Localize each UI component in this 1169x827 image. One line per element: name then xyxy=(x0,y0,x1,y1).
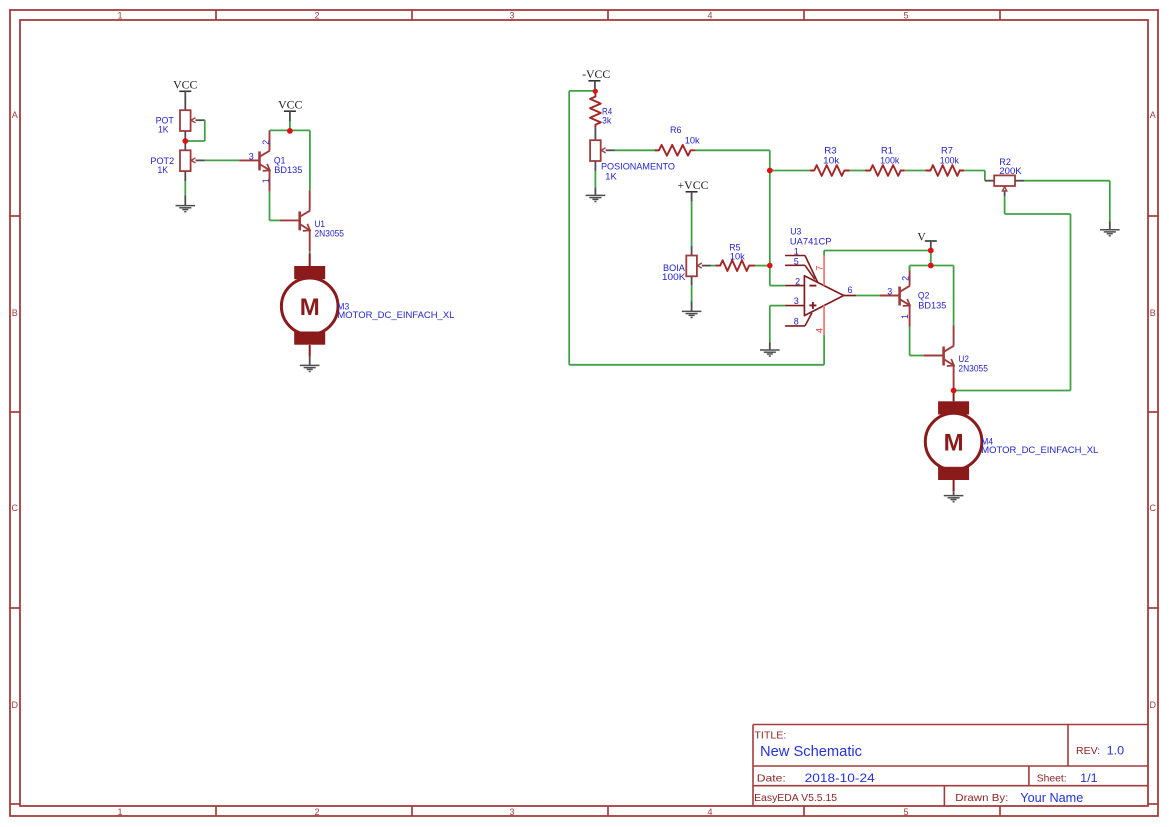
junction node M4 xyxy=(951,388,957,394)
svg-text:200K: 200K xyxy=(999,166,1022,176)
svg-text:3: 3 xyxy=(794,296,799,306)
wire POT2 to ground xyxy=(184,171,186,206)
svg-text:2: 2 xyxy=(261,140,271,145)
svg-text:1: 1 xyxy=(117,10,122,20)
power flag V xyxy=(917,231,936,250)
motor M3 MOTOR_DC_EINFACH_XL xyxy=(281,266,454,345)
svg-text:A: A xyxy=(12,110,18,120)
svg-text:+VCC: +VCC xyxy=(678,178,709,192)
svg-text:100K: 100K xyxy=(662,272,686,282)
svg-text:6: 6 xyxy=(848,285,853,295)
svg-text:New Schematic: New Schematic xyxy=(760,743,862,760)
wire POT wiper loop xyxy=(185,120,205,141)
wire U1 emitter to motor M3 xyxy=(309,251,311,266)
svg-text:2: 2 xyxy=(314,10,319,20)
junction node -VCC xyxy=(593,89,598,94)
svg-text:2N3055: 2N3055 xyxy=(315,228,345,238)
svg-text:Your Name: Your Name xyxy=(1020,791,1083,805)
svg-text:Sheet:: Sheet: xyxy=(1037,773,1067,785)
wire POSIONAMENTO to ground xyxy=(594,161,596,195)
svg-text:4: 4 xyxy=(707,807,712,817)
svg-text:C: C xyxy=(12,503,19,513)
svg-text:Q1: Q1 xyxy=(274,156,286,166)
junction node V2 xyxy=(928,263,934,269)
svg-text:8: 8 xyxy=(794,317,799,327)
potentiometer POT 1K xyxy=(156,110,205,150)
svg-text:3k: 3k xyxy=(602,116,612,126)
power flag +VCC xyxy=(678,178,709,202)
svg-text:R6: R6 xyxy=(670,125,682,135)
svg-text:1K: 1K xyxy=(158,165,169,175)
wire R5 to inverting input node xyxy=(755,265,770,267)
resistor R5 10k xyxy=(715,243,755,271)
ground (op-amp +) xyxy=(760,350,780,356)
wire R1 to R7 xyxy=(905,170,926,172)
transistor U1 2N3055 xyxy=(280,190,344,251)
ground (R2) xyxy=(1100,230,1120,236)
svg-text:VCC: VCC xyxy=(278,98,302,112)
svg-text:BD135: BD135 xyxy=(274,165,302,175)
wire R6 to node A xyxy=(695,150,769,170)
svg-text:10k: 10k xyxy=(685,135,700,145)
svg-text:MOTOR_DC_EINFACH_XL: MOTOR_DC_EINFACH_XL xyxy=(981,445,1098,455)
wire U2 emitter to motor M4 xyxy=(953,387,955,402)
svg-text:BD135: BD135 xyxy=(918,300,946,310)
svg-text:1: 1 xyxy=(794,247,799,257)
ground (BOIA) xyxy=(682,311,702,317)
svg-text:R3: R3 xyxy=(824,145,836,155)
svg-text:2018-10-24: 2018-10-24 xyxy=(805,771,875,785)
svg-text:3: 3 xyxy=(887,287,892,297)
potentiometer POSIONAMENTO 1K xyxy=(590,140,675,181)
svg-text:3: 3 xyxy=(249,152,254,162)
svg-text:MOTOR_DC_EINFACH_XL: MOTOR_DC_EINFACH_XL xyxy=(337,310,454,320)
wire BOIA wiper to R5 xyxy=(711,265,715,267)
ground (POSIONAMENTO) xyxy=(586,195,606,201)
wire V to op-amp pin 7 xyxy=(824,251,931,266)
svg-text:V: V xyxy=(917,231,926,243)
svg-text:A: A xyxy=(1150,110,1156,120)
potentiometer R2 200K xyxy=(985,157,1025,196)
wire node A down to op-amp input xyxy=(770,171,785,286)
potentiometer POT2 1K xyxy=(150,150,204,175)
svg-text:10k: 10k xyxy=(730,252,745,262)
power flag VCC (collector) xyxy=(278,98,302,122)
resistor R7 100k xyxy=(925,145,964,176)
svg-text:5: 5 xyxy=(903,807,908,817)
svg-text:U3: U3 xyxy=(790,227,801,237)
wire R3 to R1 xyxy=(850,170,865,172)
wire R2 to ground xyxy=(1024,181,1109,230)
wire BOIA to ground xyxy=(691,276,693,311)
svg-text:100k: 100k xyxy=(940,156,960,166)
power flag -VCC xyxy=(582,67,610,89)
ground (POT2) xyxy=(176,206,196,212)
junction node B (R5 / inverting) xyxy=(767,263,773,269)
svg-text:UA741CP: UA741CP xyxy=(790,237,832,247)
wire non-inverting input to ground xyxy=(770,306,785,350)
wire -VCC rail to op-amp pin 4 xyxy=(569,91,824,365)
svg-text:5: 5 xyxy=(903,10,908,20)
svg-text:B: B xyxy=(12,308,18,318)
junction node A xyxy=(767,168,773,174)
svg-text:R1: R1 xyxy=(881,145,893,155)
svg-text:REV:: REV: xyxy=(1076,745,1100,757)
potentiometer BOIA 100K xyxy=(662,256,711,283)
junction node VCC rail xyxy=(287,128,293,134)
ground (M4) xyxy=(944,496,964,502)
transistor U2 2N3055 xyxy=(924,326,988,387)
svg-text:1K: 1K xyxy=(158,124,169,134)
resistor R4 3k xyxy=(590,93,612,128)
svg-text:4: 4 xyxy=(707,10,712,20)
svg-text:100k: 100k xyxy=(880,156,900,166)
svg-text:B: B xyxy=(1150,308,1156,318)
svg-text:3: 3 xyxy=(509,807,514,817)
wire Q2 emitter to U2 base xyxy=(910,327,924,356)
svg-text:2: 2 xyxy=(314,807,319,817)
svg-text:1: 1 xyxy=(261,178,271,183)
ground (M3) xyxy=(300,365,320,371)
svg-text:POSIONAMENTO: POSIONAMENTO xyxy=(601,161,675,171)
transistor Q2 BD135 xyxy=(880,266,947,327)
wire M3 to ground xyxy=(309,345,311,365)
power flag VCC (pot branch) xyxy=(173,78,197,111)
svg-text:D: D xyxy=(12,700,19,710)
wire V node to Q2 and U2 collectors xyxy=(910,266,954,326)
junction node V xyxy=(928,248,934,254)
svg-text:2: 2 xyxy=(901,276,911,281)
svg-text:-VCC: -VCC xyxy=(582,67,610,81)
svg-text:R7: R7 xyxy=(941,145,953,155)
svg-text:1: 1 xyxy=(900,314,910,319)
svg-text:M: M xyxy=(300,294,320,321)
svg-text:7: 7 xyxy=(814,266,824,271)
svg-text:1K: 1K xyxy=(605,172,617,182)
motor M4 MOTOR_DC_EINFACH_XL xyxy=(925,401,1098,480)
resistor R6 10k xyxy=(655,125,700,156)
wire M4 to ground xyxy=(953,480,955,495)
wire R7 to R2 xyxy=(964,171,985,181)
wire R4 to POSIONAMENTO xyxy=(594,128,596,141)
svg-text:Date:: Date: xyxy=(757,773,786,785)
svg-text:C: C xyxy=(1150,503,1157,513)
svg-text:Drawn By:: Drawn By: xyxy=(955,792,1008,804)
svg-text:2N3055: 2N3055 xyxy=(958,364,988,374)
transistor Q1 BD135 xyxy=(240,130,303,191)
op-amp U3 UA741CP xyxy=(785,227,856,336)
wire op-amp output to Q2 base xyxy=(856,295,880,297)
svg-text:1/1: 1/1 xyxy=(1080,771,1098,785)
wire POSIONAMENTO wiper to R6 xyxy=(615,149,659,151)
svg-text:Q2: Q2 xyxy=(918,291,930,301)
svg-text:5: 5 xyxy=(794,256,799,266)
svg-text:10k: 10k xyxy=(823,156,840,166)
wire VCC to Q1 collector / U1 collector rail xyxy=(270,121,310,190)
resistor R3 10k xyxy=(810,145,850,176)
svg-text:4: 4 xyxy=(814,328,824,333)
resistor R1 100k xyxy=(865,145,905,176)
wire POT2 wiper to Q1 base xyxy=(205,159,240,161)
svg-text:3: 3 xyxy=(509,10,514,20)
svg-text:M: M xyxy=(944,429,964,456)
title block xyxy=(753,725,1148,807)
svg-text:1.0: 1.0 xyxy=(1107,743,1125,757)
junction node POT/POT2 xyxy=(182,138,188,144)
svg-text:VCC: VCC xyxy=(173,78,197,92)
svg-text:1: 1 xyxy=(117,807,122,817)
svg-text:2: 2 xyxy=(795,277,800,287)
svg-text:D: D xyxy=(1150,700,1157,710)
svg-text:TITLE:: TITLE: xyxy=(754,730,786,742)
wire R2 wiper feedback loop xyxy=(954,196,1071,391)
wire Q1 emitter to U1 base xyxy=(270,191,280,220)
svg-text:EasyEDA V5.5.15: EasyEDA V5.5.15 xyxy=(754,792,837,804)
wire node A to R3 xyxy=(770,170,810,172)
wire +VCC to BOIA xyxy=(691,202,693,256)
